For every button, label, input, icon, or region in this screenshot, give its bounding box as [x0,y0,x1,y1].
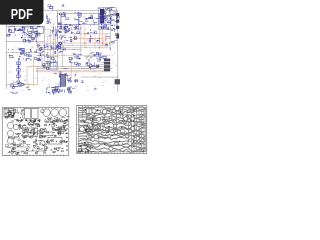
silkscreen traces [5,122,66,151]
capacitor C909 [40,129,44,133]
block outline: soft-start box [50,62,57,70]
PCB edge ticks [5,108,64,156]
degauss circuit [10,80,30,90]
dense IC block mid-left [84,125,92,132]
capacitor C904 [8,122,14,129]
wire: vertical drop Q801 [78,12,80,30]
capacitor C908 [29,121,34,126]
wire: bus lines [6,24,118,84]
solder pads [79,109,145,152]
damper diode circuit [58,42,65,50]
junction dots [84,33,107,48]
capacitor C903 [59,109,67,117]
copper trace verticals [78,107,142,143]
fuse F801 circuit [48,5,54,11]
error amp circuit [51,68,78,95]
connector CN801 pin header [60,74,66,86]
relay RY801 circuit [46,86,60,93]
capacitor C906 [8,138,14,144]
schematic sheet border [6,11,118,92]
wire: step routing to CN802 [81,65,104,69]
wire: vertical drop U801 [60,12,62,30]
IC row right part [84,16,99,26]
transformer T902 outline [32,108,38,118]
pads column right edge [66,120,67,151]
diode chain D805 [17,58,20,80]
PCB copper-side layout board outline [77,106,147,154]
aux winding parts [87,29,97,34]
soft-start circuit [43,57,57,69]
round pad cluster [88,125,107,136]
wire: red sense line [60,75,70,77]
copper traces horizontal meanders [78,107,146,152]
parts near top circles [48,117,70,121]
wire: B+ supply rails (salmon) [34,14,111,86]
trace arc bumps [81,108,141,150]
svg-text:F: F [28,86,30,90]
capacitor C901 [43,109,50,116]
wire: diagonal jumper [20,29,34,39]
connector CN803 (dark block) [115,79,120,84]
secondary rectifier circuit [86,52,106,70]
capacitor bank C810 [89,30,100,42]
page background [0,0,149,198]
PCB component-side layout board outline [2,108,69,156]
PDF badge [0,0,44,25]
capacitor C907 [23,132,29,138]
resistor network R810 [105,34,118,51]
small parts between block and transformers [15,109,25,120]
perimeter trace [78,107,145,152]
block outline: input stage box [37,27,43,34]
block outlines: converter sections [42,11,110,67]
silkscreen parts rows [6,118,68,154]
pad row [17,119,41,121]
wire: red feedback line [100,14,116,16]
clamp diode circuit [51,44,64,54]
PCB2 edge ticks [79,106,143,154]
parts mid-right [38,127,67,138]
capacitor C910 [61,126,65,130]
ground hatch stripes / vertical bus [132,109,147,152]
capacitor C902 [51,109,59,117]
feedback opto IC803 circuit [18,48,43,61]
snubber network [37,44,48,56]
input rectifier cell [46,14,51,23]
terminal lugs on right border [116,13,119,29]
zener regulator circuit [69,54,82,67]
capacitor C905 [8,130,14,137]
transistor Q801 circuit [74,13,86,29]
IC outline on PCB [34,128,38,137]
wire: mid left bus [6,52,44,54]
block outline: sub box left a [9,27,15,33]
block outline: sub box left b [24,27,33,35]
block outline: tan sub-board [27,67,38,85]
transformer T901 outline [24,108,30,118]
block outline: top IC row [58,13,100,24]
IC U802 body (dark) [100,9,104,24]
heatsink block on PCB [4,109,16,119]
IC U801 oscillator [57,12,69,30]
svg-text:PDF: PDF [11,6,33,23]
capacitor C912 [13,124,18,129]
bridge rectifier D801 circuit [14,26,41,42]
IC U802 power control [98,7,119,32]
filter C805 circuit [50,26,69,40]
dense IC block bottom-left [78,143,94,153]
left rail components [7,29,13,58]
bar component outline [40,132,53,136]
line filter L801 [62,4,65,6]
capacitor C911 (small) [41,109,45,113]
connector CN802 (dark block) [104,59,110,72]
block outline: U802 section frame [98,8,116,30]
relay RY901 outline [48,138,62,145]
copper trace loops [79,106,141,151]
caption fragment under schematic [10,92,19,94]
label 01 marks [82,81,97,90]
pad column [133,110,134,147]
switching transistor Q802 circuit [64,25,80,44]
terminal lug mid right [116,34,119,39]
parts mid-left [16,125,35,135]
designator text noise [9,12,118,90]
